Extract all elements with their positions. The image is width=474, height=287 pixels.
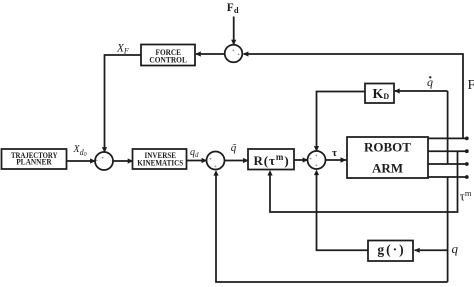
svg-text:+: + xyxy=(315,153,318,159)
svg-text:F: F xyxy=(468,78,474,93)
svg-text:qd: qd xyxy=(190,147,199,159)
svg-text:PLANNER: PLANNER xyxy=(16,157,52,167)
svg-text:ARM: ARM xyxy=(372,161,403,176)
svg-text:R(τm): R(τm) xyxy=(254,152,290,168)
svg-text:Xd0: Xd0 xyxy=(73,144,87,158)
svg-text:τm: τm xyxy=(460,188,472,204)
svg-text:+: + xyxy=(101,155,104,161)
svg-text:q̃: q̃ xyxy=(231,142,237,154)
svg-text:ROBOT: ROBOT xyxy=(364,140,411,155)
svg-text:g(·): g(·) xyxy=(377,242,405,257)
svg-text:+: + xyxy=(214,164,217,170)
svg-text:KINEMATICS: KINEMATICS xyxy=(137,157,183,167)
svg-text:+: + xyxy=(315,163,318,169)
svg-text:+: + xyxy=(209,156,212,162)
svg-text:+: + xyxy=(237,52,240,58)
svg-text:CONTROL: CONTROL xyxy=(149,54,187,64)
svg-text:+: + xyxy=(309,156,312,162)
svg-text:τ: τ xyxy=(332,147,337,159)
svg-text:Fd: Fd xyxy=(227,2,239,15)
svg-text:q: q xyxy=(452,241,459,256)
svg-text:+: + xyxy=(232,48,235,54)
svg-text:+: + xyxy=(95,158,98,164)
svg-text:XF: XF xyxy=(116,43,129,56)
